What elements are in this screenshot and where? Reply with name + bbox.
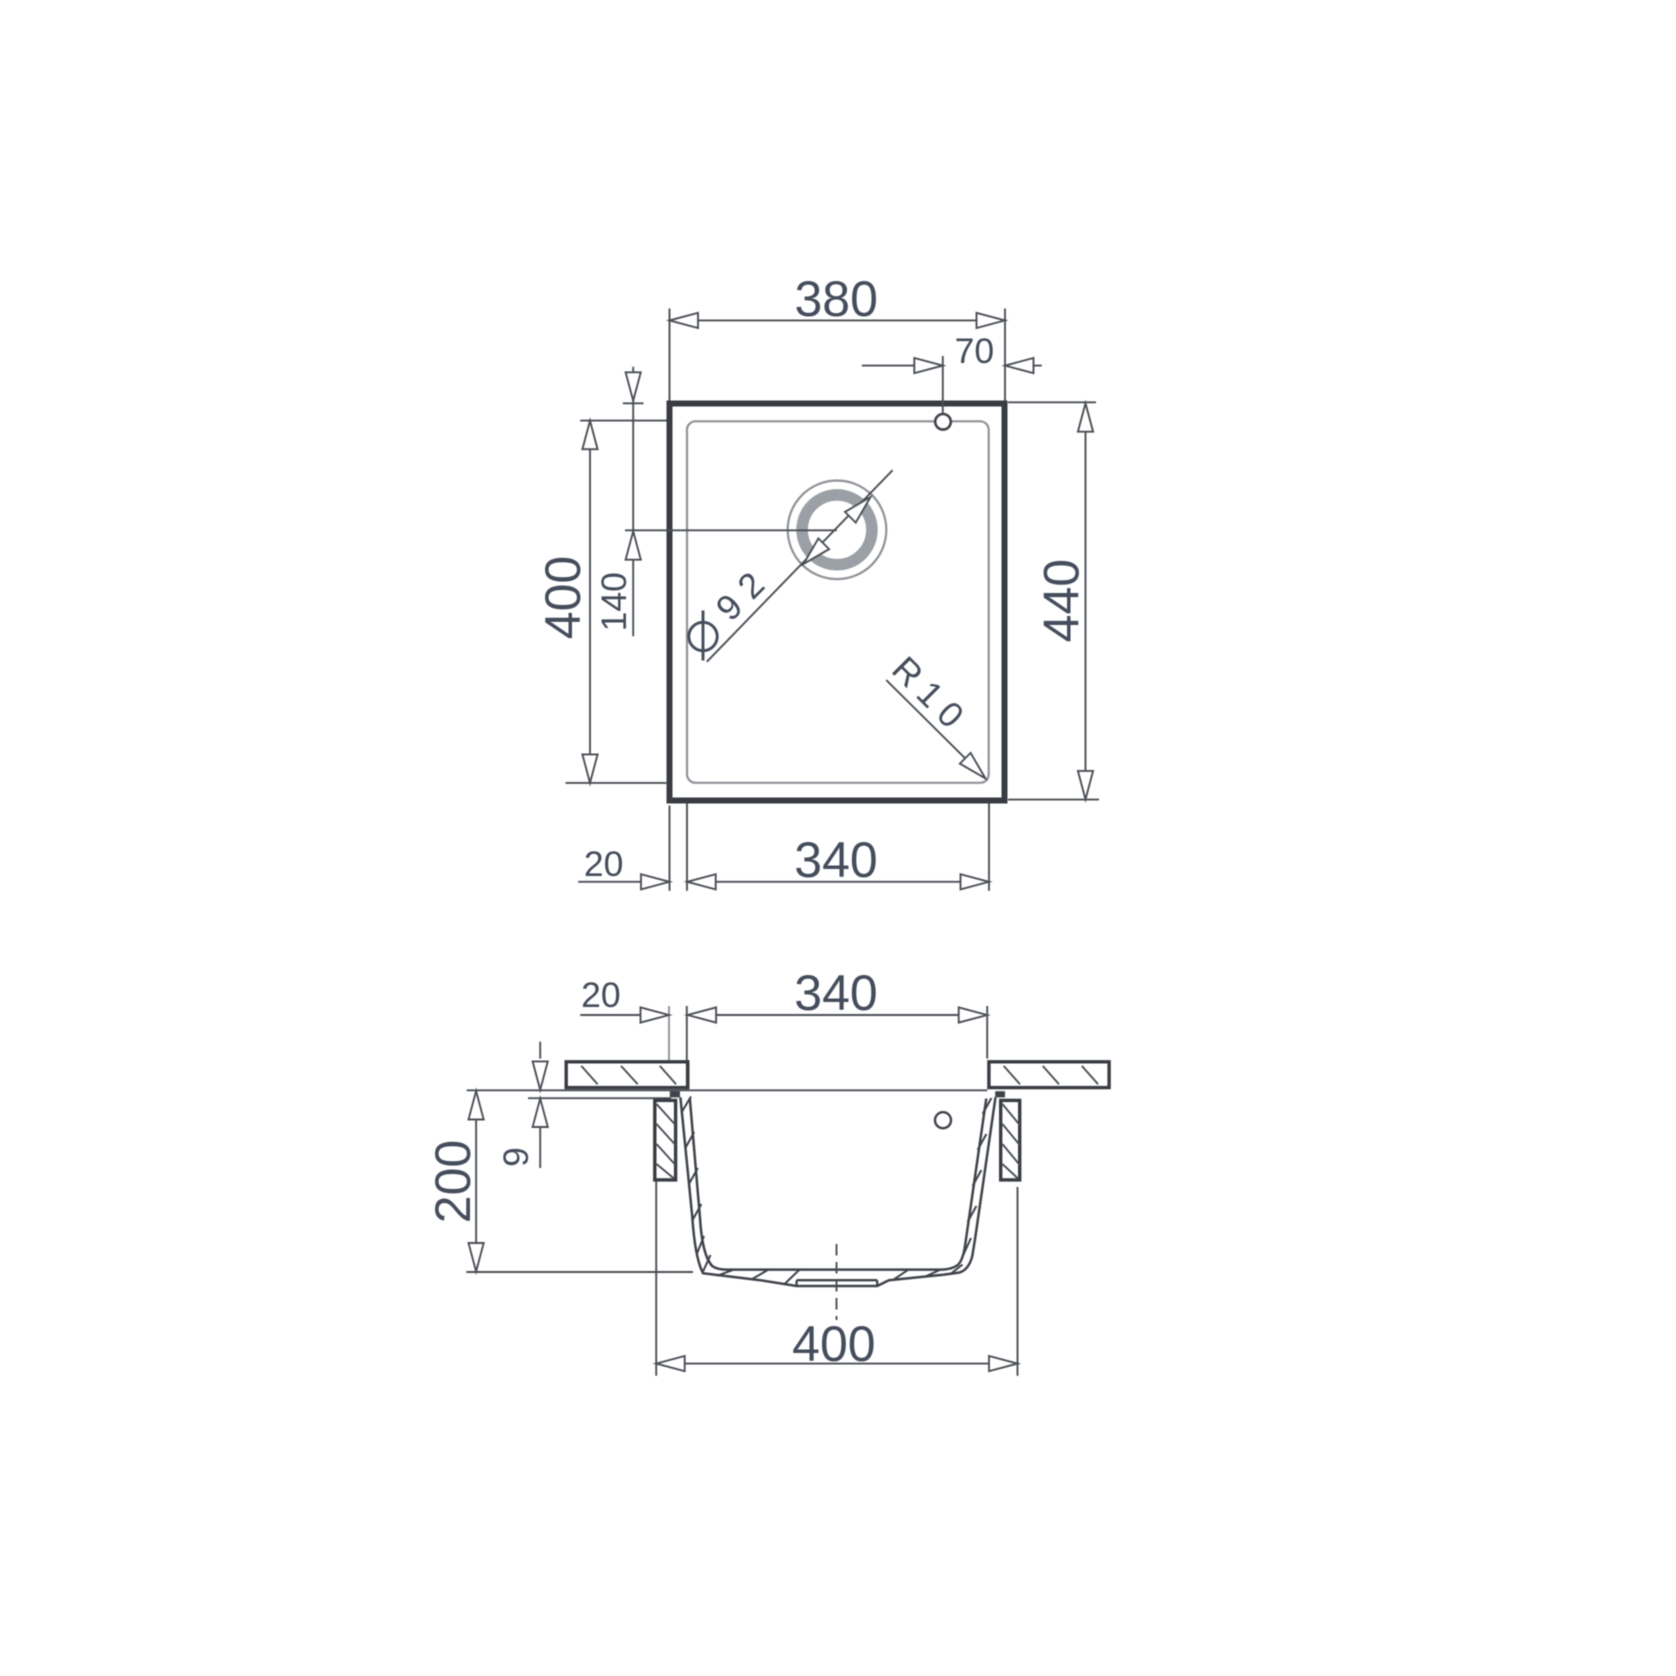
drain outer circle <box>788 481 887 580</box>
dimension 200 line <box>475 1091 477 1272</box>
diameter 92 leader line <box>707 470 893 662</box>
drain recess top edge (section) <box>797 1279 878 1281</box>
dimension 380 extension lines <box>669 309 671 401</box>
bottom extension lines (top view) <box>669 806 671 891</box>
sink bowl inner edge (top view) <box>687 421 989 783</box>
dimension 140 line <box>632 367 634 531</box>
svg-text:440: 440 <box>1034 559 1090 642</box>
svg-text:20: 20 <box>584 844 624 884</box>
sink flange right lip (section) <box>995 1091 1005 1097</box>
svg-text:380: 380 <box>794 271 877 327</box>
sink outer rim (top view) <box>670 404 1005 801</box>
svg-text:20: 20 <box>581 975 621 1015</box>
drain centre extension line <box>625 529 837 531</box>
right mounting clip <box>1001 1100 1020 1180</box>
svg-text:9: 9 <box>496 1147 536 1167</box>
section dimension 20 line <box>580 1014 669 1016</box>
dimension 340 line (top view) <box>687 881 989 883</box>
left mounting clip <box>655 1100 676 1180</box>
dimension 400 extension lines (top view) <box>580 420 666 422</box>
svg-text:200: 200 <box>425 1140 481 1223</box>
dimension 400 line (section) <box>656 1363 1017 1365</box>
radius R10 leader line <box>886 680 985 778</box>
dimension 400 line (top view) <box>589 421 591 783</box>
bowl outer wall (section) <box>680 1097 995 1286</box>
flange underside line (section) <box>528 1097 671 1099</box>
dimension 9 line <box>539 1042 541 1059</box>
dimension 70 leader lines <box>862 365 943 367</box>
tap hole (section) <box>935 1112 951 1128</box>
centre line (section) <box>836 1244 838 1320</box>
dimension 200 bottom extension line <box>466 1271 693 1273</box>
sink rim top line (section) <box>467 1089 988 1091</box>
sink flange left lip (section) <box>670 1091 680 1097</box>
svg-text:340: 340 <box>794 832 877 888</box>
dimension 380 line <box>670 319 1006 321</box>
bowl wall hatching (section) <box>682 1097 992 1285</box>
svg-text:400: 400 <box>535 556 591 639</box>
dimension 140 tick at rim <box>623 402 644 404</box>
dimension 400 extension lines (section) <box>655 1182 657 1376</box>
dimension 440 extension lines <box>1008 401 1096 403</box>
dimension 440 line <box>1085 403 1087 799</box>
section dimension 340 line <box>688 1014 988 1016</box>
svg-text:70: 70 <box>955 331 995 371</box>
svg-text:400: 400 <box>792 1316 875 1372</box>
bowl inner wall (section) <box>690 1098 987 1269</box>
left countertop slab <box>566 1062 688 1088</box>
svg-text:340: 340 <box>794 965 877 1021</box>
dimension 20 line (top view) <box>578 881 669 883</box>
tap hole extension line <box>942 356 944 414</box>
svg-text:140: 140 <box>594 572 634 631</box>
dimension text O92 <box>689 622 717 650</box>
tap hole (top view) <box>935 414 951 430</box>
drain ring <box>802 495 872 565</box>
right countertop slab <box>989 1062 1109 1088</box>
section dimension 20/340 extension lines <box>668 1006 670 1060</box>
